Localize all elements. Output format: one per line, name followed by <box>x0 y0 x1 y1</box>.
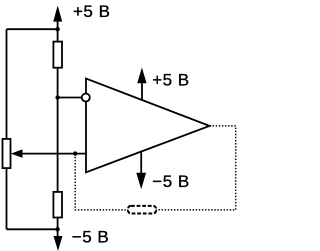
wire left rail vertical <box>6 29 8 229</box>
wire top horizontal <box>7 28 58 30</box>
resistor top <box>53 42 62 68</box>
svg-text:+5 В: +5 В <box>152 70 189 89</box>
junction divider tap <box>55 95 59 99</box>
resistor bottom <box>53 192 62 218</box>
inverting input bubble <box>82 94 90 102</box>
junction top <box>55 27 60 32</box>
svg-text:+5 В: +5 В <box>73 2 110 21</box>
-5V supply arrowhead bottom <box>54 236 63 251</box>
svg-text:−5 В: −5 В <box>152 172 189 191</box>
op-amp +5V arrow shaft <box>141 82 143 101</box>
wire middle divider rail <box>57 14 59 237</box>
wire divider tap to upper input <box>58 97 82 99</box>
op-amp comparator triangle <box>86 79 210 173</box>
+5V supply arrowhead top <box>53 6 62 22</box>
wire bottom horizontal <box>7 228 58 230</box>
potentiometer body <box>3 139 11 168</box>
junction feedback node <box>73 151 77 155</box>
hysteresis resistor dashed body <box>128 206 156 214</box>
potentiometer wiper arrowhead <box>11 149 23 157</box>
op-amp -5V arrow shaft <box>140 152 142 175</box>
op-amp -5V arrowhead <box>136 173 146 189</box>
op-amp +5V arrowhead <box>137 68 146 84</box>
svg-text:−5 В: −5 В <box>72 228 109 247</box>
feedback dotted wire <box>75 126 236 210</box>
junction bottom <box>55 227 60 232</box>
wire wiper to lower input <box>21 153 87 155</box>
